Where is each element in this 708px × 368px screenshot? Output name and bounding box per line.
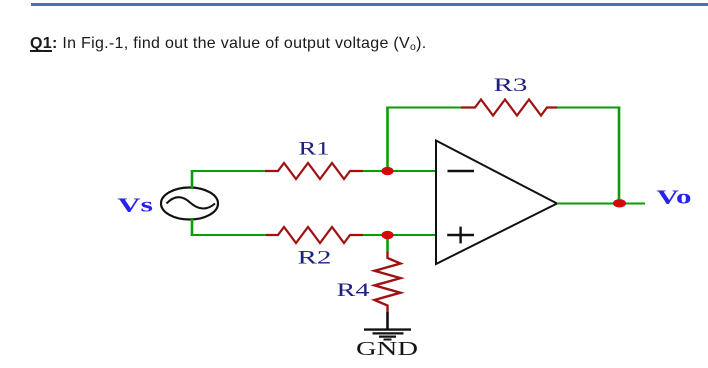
inverting input marker (-)	[448, 170, 475, 172]
wire source top to R1	[191, 170, 194, 189]
svg-text:Vo: Vo	[657, 187, 692, 209]
wire source bottom to R2	[191, 218, 194, 236]
svg-text:R1: R1	[299, 139, 330, 160]
wire op-amp output to Vo	[557, 203, 645, 205]
resistor R3	[461, 100, 558, 116]
ground GND	[364, 312, 411, 340]
node C output junction dot	[613, 199, 626, 207]
svg-text:R2: R2	[298, 248, 332, 269]
svg-text:R3: R3	[494, 75, 528, 96]
wire node B to R4	[386, 235, 389, 253]
svg-text:R4: R4	[337, 280, 371, 301]
resistor R1	[265, 163, 363, 179]
wire R3 to output node	[557, 107, 620, 109]
svg-text:GND: GND	[356, 338, 418, 360]
resistor R2	[266, 227, 363, 243]
voltage source Vs	[161, 188, 218, 220]
node A junction dot	[382, 167, 394, 176]
wire node A to op-amp inverting input	[388, 170, 436, 172]
non-inverting input marker (+)	[447, 227, 474, 244]
node B junction dot	[382, 231, 394, 240]
wire R1 to node A	[363, 170, 388, 172]
resistor R4	[375, 252, 401, 313]
wire node A up to feedback line	[386, 107, 389, 173]
svg-text:Vs: Vs	[118, 195, 154, 217]
question text	[30, 36, 427, 52]
wire node B to op-amp non-inverting input	[388, 234, 436, 236]
op-amp U1	[436, 141, 557, 265]
wire R2 to node B	[363, 234, 388, 236]
